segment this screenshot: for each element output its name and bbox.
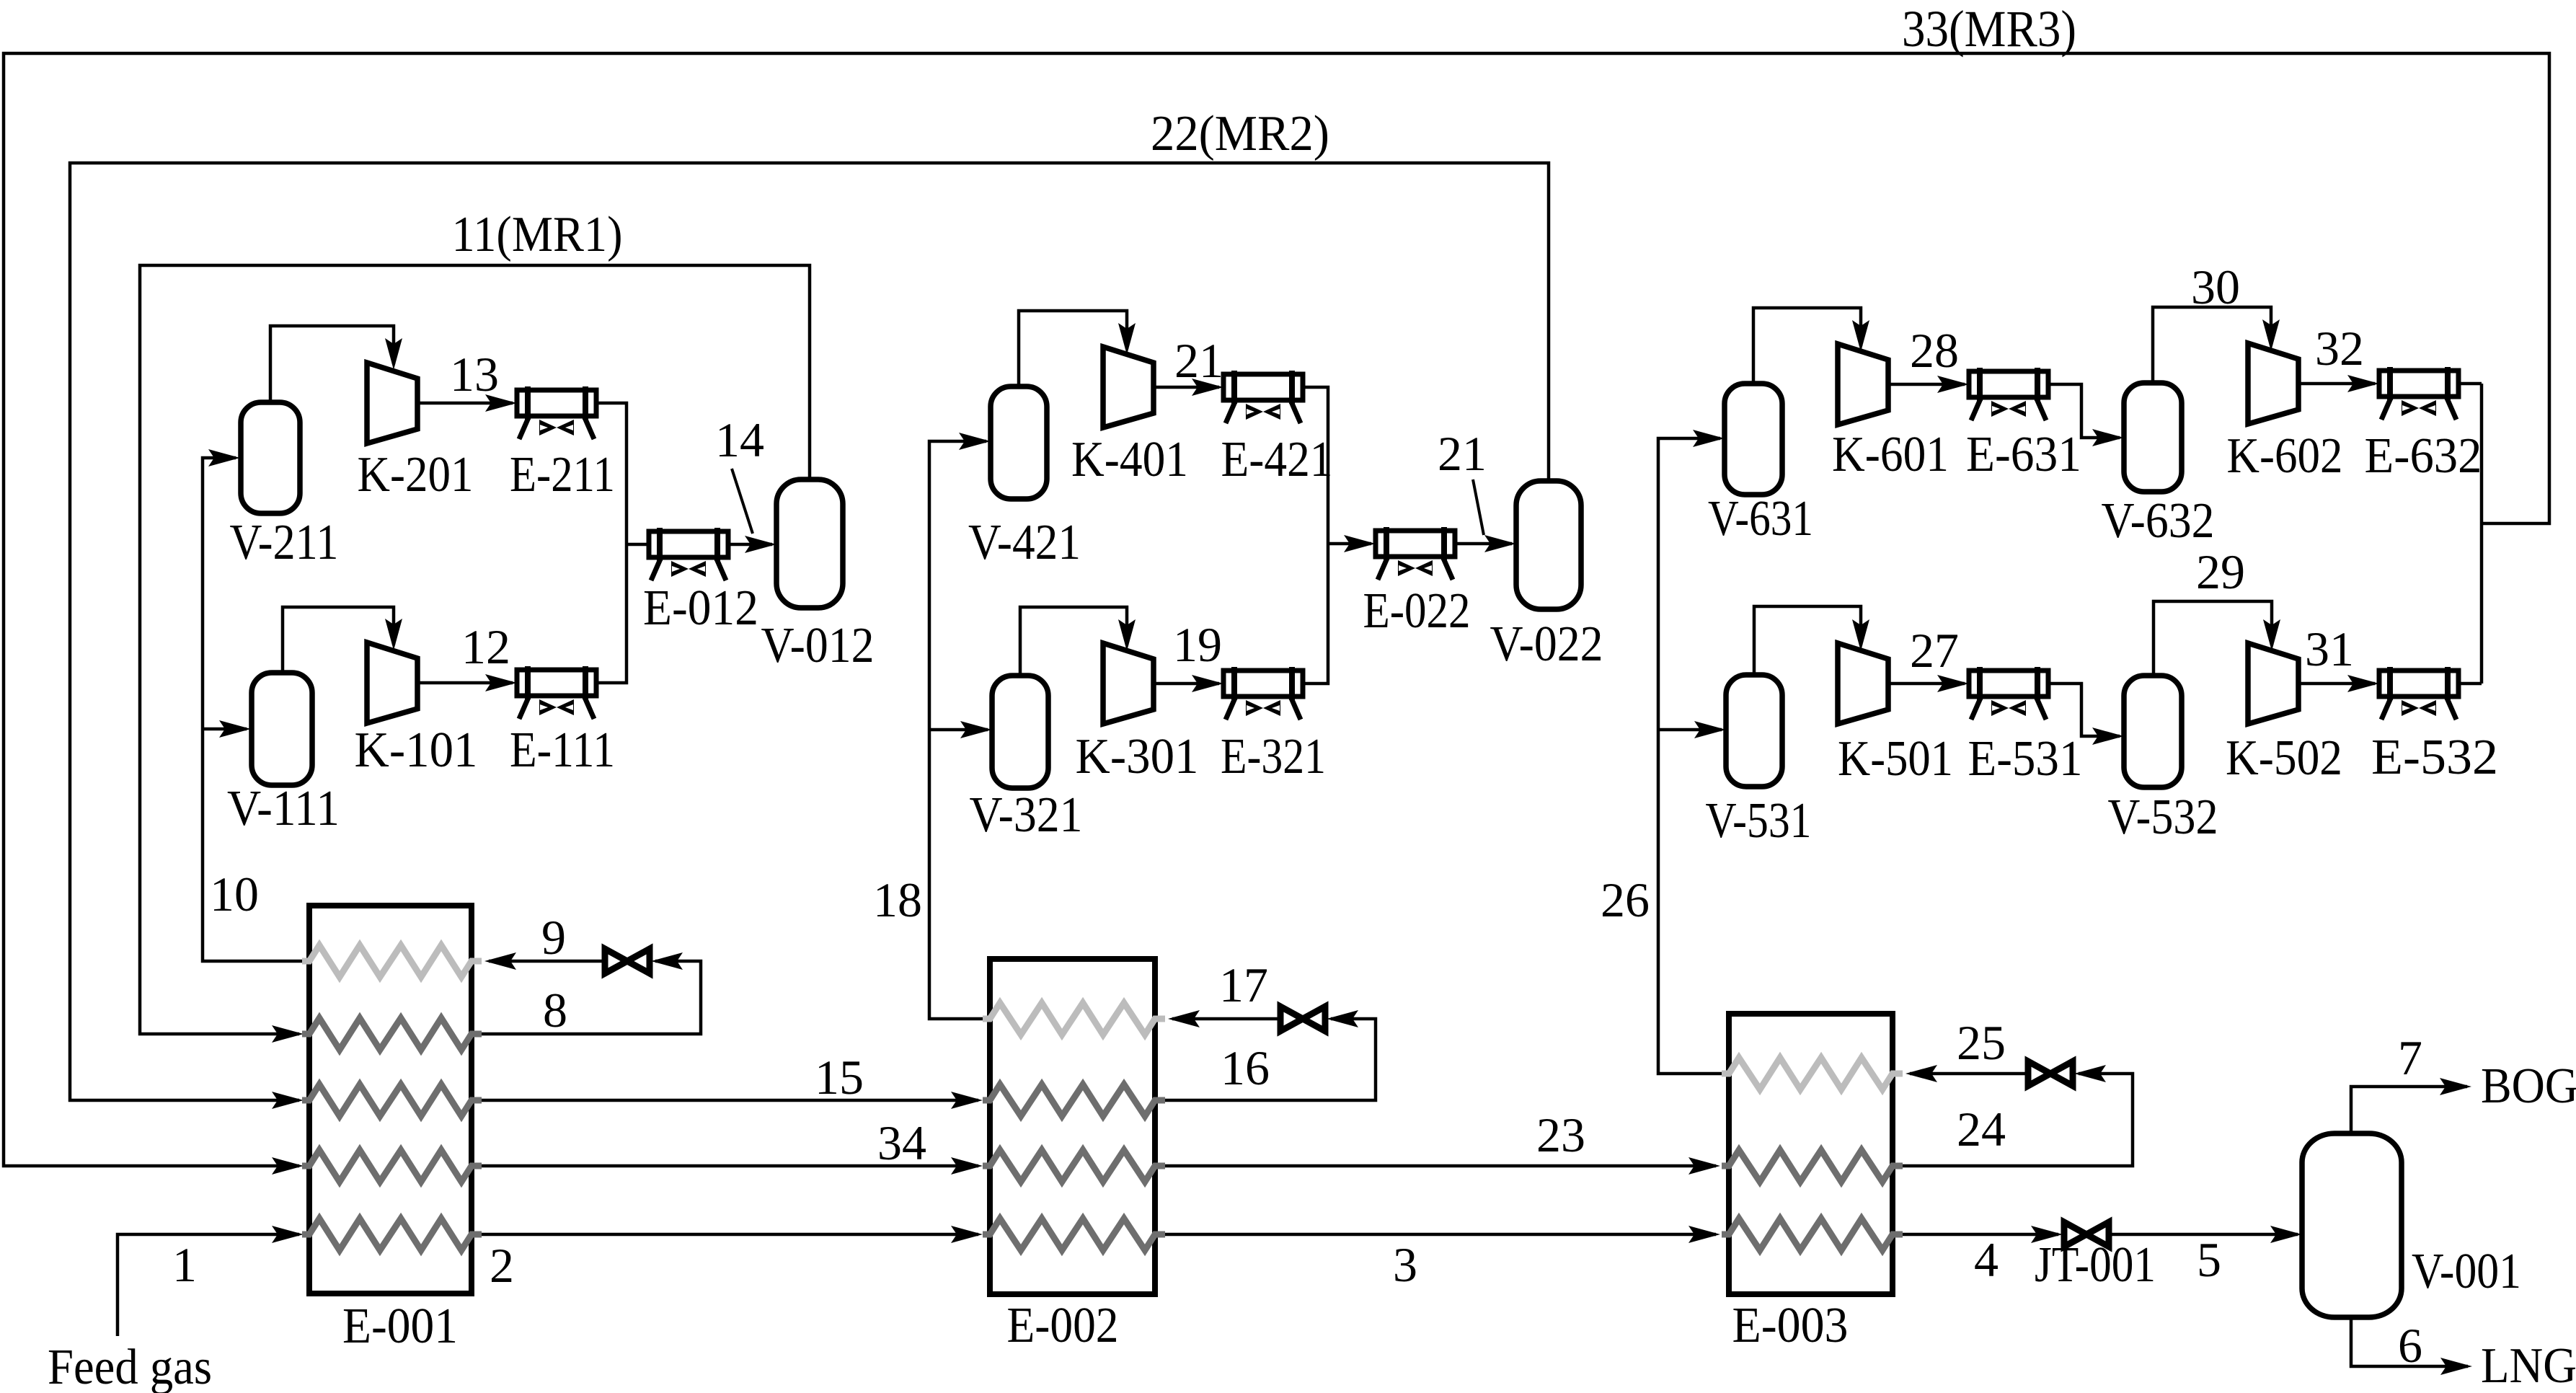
JT valve JT-001 xyxy=(2064,1222,2109,1247)
wire stream 23 E-002 coil 3 to E-003 coil 2 xyxy=(1165,1157,1720,1175)
wire stream 24 E-003 coil 2 to valve xyxy=(1903,1065,2133,1166)
label 1 xyxy=(172,1237,197,1292)
valve on stream 24/25 xyxy=(2028,1061,2073,1086)
label V-421 xyxy=(968,515,1081,570)
label 18 xyxy=(873,872,922,927)
wire stream 26 from E-003 coil 1 up to V-631 and V-531 xyxy=(1658,430,1726,1074)
air cooler E-321 xyxy=(1223,667,1303,720)
svg-text:1: 1 xyxy=(172,1237,197,1292)
wire stream 22 (MR2) from V-022 top to E-001 coil 3 xyxy=(70,163,1549,1109)
svg-text:7: 7 xyxy=(2398,1030,2422,1085)
label K-601 xyxy=(1832,427,1949,482)
compressor K-602 xyxy=(2248,343,2298,424)
svg-text:31: 31 xyxy=(2305,622,2354,676)
label LNG xyxy=(2481,1338,2576,1393)
svg-text:V-421: V-421 xyxy=(968,515,1081,570)
wire stream 17 valve to E-002 coil 1 xyxy=(1168,1010,1279,1027)
label 16 xyxy=(1221,1040,1270,1095)
wire E-632 outlet to MR3 header xyxy=(2458,382,2482,386)
vessel V-631 xyxy=(1725,384,1782,495)
vessel V-531 xyxy=(1726,675,1782,787)
coil 2 of E-002 (stream 15-16) xyxy=(983,1084,1165,1116)
air cooler E-631 xyxy=(1969,368,2048,420)
label E-022 xyxy=(1363,583,1471,639)
compressor K-401 xyxy=(1103,347,1154,428)
wire stream 21 K-401 to E-421 xyxy=(1152,379,1223,396)
label V-631 xyxy=(1708,491,1813,547)
svg-text:14: 14 xyxy=(715,412,764,467)
svg-text:E-012: E-012 xyxy=(643,580,758,636)
wire stream 7 V-001 top to BOG xyxy=(2351,1078,2471,1133)
label E-421 xyxy=(1221,432,1333,487)
svg-text:V-012: V-012 xyxy=(761,618,875,673)
svg-text:15: 15 xyxy=(815,1050,864,1105)
svg-text:K-602: K-602 xyxy=(2227,428,2343,484)
svg-text:JT-001: JT-001 xyxy=(2035,1237,2156,1293)
label 11(MR1) xyxy=(452,207,623,262)
svg-text:E-421: E-421 xyxy=(1221,432,1333,487)
svg-text:K-501: K-501 xyxy=(1838,731,1953,787)
svg-text:E-321: E-321 xyxy=(1221,729,1326,784)
compressor K-502 xyxy=(2248,643,2298,724)
wire stream 29 V-532 top to K-502 inlet xyxy=(2154,601,2280,676)
wire stream 16 E-002 coil 2 to valve xyxy=(1165,1010,1376,1100)
compressor K-501 xyxy=(1838,643,1888,724)
svg-text:27: 27 xyxy=(1910,623,1959,678)
svg-text:25: 25 xyxy=(1957,1015,2006,1070)
air cooler E-421 xyxy=(1223,371,1303,423)
label 32 xyxy=(2315,321,2364,376)
svg-text:E-022: E-022 xyxy=(1363,583,1471,639)
wire stream 31 K-502 to E-532 xyxy=(2297,675,2379,692)
wire stream 32 K-602 to E-632 xyxy=(2297,375,2379,392)
wire stream 4 E-003 coil 3 to JT-001 xyxy=(1903,1226,2063,1243)
label 19 xyxy=(1173,617,1222,672)
label 24 xyxy=(1957,1102,2006,1157)
svg-text:V-001: V-001 xyxy=(2412,1244,2521,1299)
svg-text:3: 3 xyxy=(1393,1237,1417,1292)
wire V-321 top to K-301 inlet xyxy=(1020,607,1136,676)
wire stream 8 E-001 coil 2 to valve xyxy=(482,952,701,1034)
vessel V-632 xyxy=(2124,383,2182,492)
coil 5 of E-001 (stream 1-2) xyxy=(302,1219,482,1250)
label V-001 xyxy=(2412,1244,2521,1299)
svg-text:21: 21 xyxy=(1438,426,1487,481)
svg-text:E-532: E-532 xyxy=(2371,730,2498,785)
wire stream 9 valve to E-001 coil 1 xyxy=(484,952,603,970)
label 30 xyxy=(2191,260,2240,314)
label 33(MR3) xyxy=(1902,0,2076,58)
wire stream 18 from E-002 coil 1 up to V-421 and V-321 xyxy=(929,433,992,1019)
label 8 xyxy=(543,983,567,1038)
air cooler E-531 xyxy=(1969,667,2048,720)
label V-531 xyxy=(1706,793,1812,849)
wire stream 33 (MR3) return loop from E-632/E-532 to E-001 coil 4 xyxy=(4,53,2549,1175)
wire stream 13 K-201 to E-211 xyxy=(416,394,517,412)
svg-text:10: 10 xyxy=(210,867,259,921)
label K-502 xyxy=(2226,730,2342,786)
svg-text:K-201: K-201 xyxy=(358,447,474,503)
svg-text:V-111: V-111 xyxy=(227,781,340,836)
label V-632 xyxy=(2102,493,2215,549)
label 34 xyxy=(877,1115,926,1170)
label K-501 xyxy=(1838,731,1953,787)
svg-text:12: 12 xyxy=(461,619,510,674)
svg-text:32: 32 xyxy=(2315,321,2364,376)
coil 1 of E-001 (streams 9-10) xyxy=(302,945,482,977)
wire stream 25 valve to E-003 coil 1 xyxy=(1906,1065,2027,1082)
svg-text:V-211: V-211 xyxy=(230,515,339,570)
svg-text:18: 18 xyxy=(873,872,922,927)
air cooler E-532 xyxy=(2379,667,2458,720)
svg-text:8: 8 xyxy=(543,983,567,1038)
label E-211 xyxy=(510,447,615,503)
label 5 xyxy=(2197,1232,2221,1287)
svg-text:V-632: V-632 xyxy=(2102,493,2215,549)
svg-text:34: 34 xyxy=(877,1115,926,1170)
coil 3 of E-003 (stream 3-4) xyxy=(1722,1219,1903,1250)
svg-text:E-631: E-631 xyxy=(1966,427,2081,482)
heat exchanger E-001 shell xyxy=(309,906,472,1293)
svg-text:V-321: V-321 xyxy=(970,787,1083,843)
svg-text:E-211: E-211 xyxy=(510,447,615,503)
label K-201 xyxy=(358,447,474,503)
label E-532 xyxy=(2371,730,2498,785)
label 27 xyxy=(1910,623,1959,678)
air cooler E-111 xyxy=(517,666,596,719)
svg-text:V-531: V-531 xyxy=(1706,793,1812,849)
vessel V-321 xyxy=(992,676,1048,788)
wire stream 10 from E-001 coil 1 up to V-211 and V-111 xyxy=(203,449,302,961)
wire stream 27 K-501 to E-531 xyxy=(1887,675,1969,692)
label 9 xyxy=(541,910,566,965)
svg-text:5: 5 xyxy=(2197,1232,2221,1287)
wire stream 12 K-101 to E-111 xyxy=(416,674,517,691)
coil 1 of E-002 (streams 17-18) xyxy=(983,1003,1165,1035)
label 21 (discharge K-401) xyxy=(1174,333,1223,388)
label 31 xyxy=(2305,622,2354,676)
wire stream 6 V-001 bottom to LNG xyxy=(2351,1317,2472,1375)
wire V-421 top to K-401 inlet xyxy=(1019,311,1136,386)
wire stream 28 K-601 to E-631 xyxy=(1887,376,1969,393)
air cooler E-012 xyxy=(649,528,728,580)
label E-002 xyxy=(1007,1298,1119,1353)
svg-text:30: 30 xyxy=(2191,260,2240,314)
wire E-532 outlet to MR3 header xyxy=(2458,682,2482,686)
heat exchanger E-003 shell xyxy=(1729,1014,1893,1294)
label E-321 xyxy=(1221,729,1326,784)
wire V-111 top to K-101 inlet xyxy=(283,607,402,673)
wire stream 2 E-001 coil 5 to E-002 coil 4 xyxy=(482,1226,983,1243)
svg-text:16: 16 xyxy=(1221,1040,1270,1095)
label K-602 xyxy=(2227,428,2343,484)
svg-text:V-631: V-631 xyxy=(1708,491,1813,547)
svg-text:K-502: K-502 xyxy=(2226,730,2342,786)
svg-text:24: 24 xyxy=(1957,1102,2006,1157)
label 13 xyxy=(450,347,499,402)
valve on stream 16/17 xyxy=(1280,1007,1325,1031)
wire stream 19 K-301 to E-321 xyxy=(1152,675,1223,692)
coil 2 of E-003 (stream 23-24) xyxy=(1722,1150,1903,1182)
coil 4 of E-002 (stream 2-3) xyxy=(983,1219,1165,1250)
air cooler E-022 xyxy=(1376,527,1455,580)
label 17 xyxy=(1219,958,1268,1012)
label E-003 xyxy=(1732,1298,1849,1353)
label E-012 xyxy=(643,580,758,636)
label K-301 xyxy=(1076,729,1199,784)
label JT-001 xyxy=(2035,1237,2156,1293)
svg-text:K-401: K-401 xyxy=(1071,432,1188,487)
label 4 xyxy=(1974,1232,1999,1287)
label 12 xyxy=(461,619,510,674)
coil 3 of E-001 (stream 22-15) xyxy=(302,1084,482,1116)
valve on stream 8/9 xyxy=(605,949,650,973)
compressor K-601 xyxy=(1838,344,1888,425)
label 15 xyxy=(815,1050,864,1105)
svg-text:4: 4 xyxy=(1974,1232,1999,1287)
wire stream 34 E-001 coil 4 to E-002 coil 3 xyxy=(482,1157,983,1175)
svg-text:E-531: E-531 xyxy=(1968,731,2083,787)
label V-321 xyxy=(970,787,1083,843)
vessel V-532 xyxy=(2124,676,2182,787)
label 28 xyxy=(1910,323,1959,378)
wire stream 3 E-002 coil 4 to E-003 coil 3 xyxy=(1165,1226,1720,1243)
svg-text:33(MR3): 33(MR3) xyxy=(1902,0,2076,58)
vessel V-111 xyxy=(252,673,312,785)
label E-632 xyxy=(2365,428,2482,484)
label V-532 xyxy=(2108,790,2218,845)
svg-text:22(MR2): 22(MR2) xyxy=(1151,106,1329,162)
wire E-211 and E-111 outlets to E-012 xyxy=(596,403,649,683)
label V-211 xyxy=(230,515,339,570)
heat exchanger E-002 shell xyxy=(990,959,1155,1294)
svg-text:Feed gas: Feed gas xyxy=(48,1340,212,1393)
svg-text:E-001: E-001 xyxy=(342,1299,458,1354)
svg-text:6: 6 xyxy=(2398,1318,2422,1373)
wire V-531 top to K-501 inlet xyxy=(1754,606,1869,675)
svg-text:BOG: BOG xyxy=(2481,1058,2576,1114)
svg-text:29: 29 xyxy=(2196,544,2245,599)
vessel V-022 xyxy=(1516,481,1581,609)
label E-111 xyxy=(510,722,615,778)
wire stream 15 E-001 coil 3 to E-002 coil 2 xyxy=(482,1092,983,1109)
wire E-531 outlet to V-532 xyxy=(2048,684,2124,745)
label BOG xyxy=(2481,1058,2576,1114)
svg-text:13: 13 xyxy=(450,347,499,402)
compressor K-101 xyxy=(367,642,417,723)
svg-text:17: 17 xyxy=(1219,958,1268,1012)
svg-text:21: 21 xyxy=(1174,333,1223,388)
svg-text:E-632: E-632 xyxy=(2365,428,2482,484)
label 7 xyxy=(2398,1030,2422,1085)
label K-401 xyxy=(1071,432,1188,487)
wire E-631 outlet to V-632 xyxy=(2048,384,2124,446)
svg-text:E-003: E-003 xyxy=(1732,1298,1849,1353)
wire stream 21 E-022 outlet to V-022 xyxy=(1456,535,1516,552)
svg-text:11(MR1): 11(MR1) xyxy=(452,207,623,262)
svg-text:9: 9 xyxy=(541,910,566,965)
vessel V-012 xyxy=(776,479,843,608)
coil 2 of E-001 (stream 11-8) xyxy=(302,1018,482,1050)
label 14 xyxy=(715,412,764,467)
svg-text:E-111: E-111 xyxy=(510,722,615,778)
wire V-211 top to K-201 inlet xyxy=(270,326,402,402)
label K-101 xyxy=(355,722,478,778)
coil 1 of E-003 (streams 25-26) xyxy=(1722,1058,1903,1089)
svg-text:23: 23 xyxy=(1536,1107,1585,1162)
air cooler E-632 xyxy=(2379,367,2458,420)
wire E-421 and E-321 outlets to E-022 xyxy=(1303,387,1376,684)
svg-text:V-022: V-022 xyxy=(1490,616,1603,672)
svg-text:V-532: V-532 xyxy=(2108,790,2218,845)
label 25 xyxy=(1957,1015,2006,1070)
label Feed gas xyxy=(48,1340,212,1393)
coil 4 of E-001 (stream 33-34) xyxy=(302,1150,482,1182)
wire stream 1 feed gas to E-001 coil 5 xyxy=(118,1226,304,1336)
vessel V-421 xyxy=(991,386,1047,499)
label 2 xyxy=(490,1238,514,1293)
label 23 xyxy=(1536,1107,1585,1162)
svg-text:K-301: K-301 xyxy=(1076,729,1199,784)
label 22(MR2) xyxy=(1151,106,1329,162)
label 3 xyxy=(1393,1237,1417,1292)
label 10 xyxy=(210,867,259,921)
coil 3 of E-002 (stream 34-23) xyxy=(983,1150,1165,1182)
label V-012 xyxy=(761,618,875,673)
wire stream 5 JT-001 to V-001 xyxy=(2110,1226,2302,1243)
wire stream 30 V-632 top to K-602 inlet xyxy=(2153,307,2280,383)
vessel V-001 xyxy=(2302,1133,2402,1317)
wire V-631 top to K-601 inlet xyxy=(1753,308,1869,384)
svg-text:K-601: K-601 xyxy=(1832,427,1949,482)
svg-text:26: 26 xyxy=(1601,872,1650,927)
compressor K-301 xyxy=(1103,643,1154,724)
svg-text:28: 28 xyxy=(1910,323,1959,378)
label V-022 xyxy=(1490,616,1603,672)
label 6 xyxy=(2398,1318,2422,1373)
vessel V-211 xyxy=(241,402,300,513)
label 29 xyxy=(2196,544,2245,599)
label E-631 xyxy=(1966,427,2081,482)
leader line of label 14 xyxy=(732,469,753,534)
label E-001 xyxy=(342,1299,458,1354)
leader line of label 21 xyxy=(1473,479,1484,535)
label E-531 xyxy=(1968,731,2083,787)
wire stream 14 E-012 outlet to V-012 xyxy=(729,536,776,553)
wire stream 11 (MR1) from V-012 top to E-001 coil 2 xyxy=(140,265,810,1043)
label 26 xyxy=(1601,872,1650,927)
compressor K-201 xyxy=(367,363,417,443)
air cooler E-211 xyxy=(517,386,596,439)
label 21 (into V-022) xyxy=(1438,426,1487,481)
label V-111 xyxy=(227,781,340,836)
svg-text:19: 19 xyxy=(1173,617,1222,672)
svg-text:E-002: E-002 xyxy=(1007,1298,1119,1353)
svg-text:LNG: LNG xyxy=(2481,1338,2576,1393)
svg-text:K-101: K-101 xyxy=(355,722,478,778)
svg-text:2: 2 xyxy=(490,1238,514,1293)
